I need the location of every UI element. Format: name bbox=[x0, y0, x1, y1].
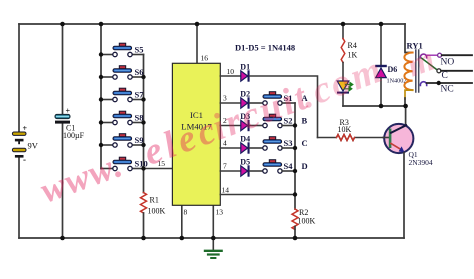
wire S1 to bus bbox=[282, 102, 295, 104]
svg-text:+: + bbox=[23, 124, 28, 133]
contact C bbox=[437, 69, 441, 73]
node: S1-S4 output bus bbox=[294, 103, 296, 209]
svg-text:D1-D5 = 1N4148: D1-D5 = 1N4148 bbox=[235, 43, 295, 53]
svg-text:C: C bbox=[442, 71, 448, 81]
transistor Q1 2N3904 bbox=[383, 124, 433, 167]
diode D3 bbox=[240, 112, 250, 131]
switch S4 bbox=[263, 160, 293, 174]
wire pin8 bbox=[181, 205, 183, 238]
wire collector bbox=[405, 106, 407, 126]
svg-text:1N4002: 1N4002 bbox=[387, 78, 407, 85]
coil wire bottom bbox=[405, 90, 413, 99]
switch S2 bbox=[263, 114, 293, 128]
wire S3 to bus bbox=[282, 147, 295, 149]
wire pin14 row bbox=[220, 194, 295, 196]
svg-text:NC: NC bbox=[441, 85, 454, 95]
svg-text:S4: S4 bbox=[284, 161, 294, 171]
wire mid rail (LED/D6/coil bottom to collector) bbox=[343, 105, 406, 107]
wire bottom rail bbox=[19, 237, 404, 239]
wire pin13 bbox=[212, 205, 214, 238]
contact NO bbox=[420, 54, 426, 58]
svg-text:NO: NO bbox=[441, 58, 455, 68]
svg-text:3: 3 bbox=[223, 94, 227, 103]
op-amp U1: IC1 LM4017 counter bbox=[172, 63, 220, 205]
ground bbox=[205, 238, 222, 258]
svg-text:R1: R1 bbox=[150, 196, 159, 205]
svg-text:-: - bbox=[23, 155, 26, 165]
relay core bbox=[415, 50, 417, 92]
wire S2 to bus bbox=[282, 125, 295, 127]
svg-text:D6: D6 bbox=[388, 65, 398, 74]
diode D5 bbox=[240, 158, 250, 177]
switch S1 bbox=[263, 92, 293, 106]
svg-text:S10: S10 bbox=[135, 159, 148, 169]
relay RY1 bbox=[404, 24, 472, 106]
svg-text:D: D bbox=[302, 161, 308, 171]
resistor R3 10K bbox=[318, 118, 384, 141]
capacitor C1 100uF bbox=[55, 24, 85, 238]
svg-text:100K: 100K bbox=[148, 207, 166, 216]
watermark www.elecircuit.com bbox=[35, 48, 389, 211]
svg-text:16: 16 bbox=[201, 54, 209, 63]
svg-text:2N3904: 2N3904 bbox=[409, 158, 433, 167]
relay armature bbox=[422, 58, 437, 70]
diode D6 1N4002 bbox=[375, 24, 406, 106]
wire pin15 bbox=[144, 168, 173, 170]
wire pin16 bbox=[196, 24, 198, 63]
svg-text:14: 14 bbox=[222, 186, 230, 195]
switch S9 bbox=[101, 134, 144, 148]
switch S10 bbox=[101, 157, 148, 171]
wire emitter bbox=[403, 153, 405, 239]
svg-text:10: 10 bbox=[227, 67, 235, 76]
svg-text:S5: S5 bbox=[135, 45, 144, 55]
wire left rail lower bbox=[18, 158, 20, 239]
wire pin3 row bbox=[220, 102, 240, 104]
wire D4 to S3 bbox=[250, 147, 263, 149]
wire pin2 row bbox=[220, 125, 240, 127]
wire pin7 row bbox=[220, 170, 240, 172]
node: right bus of left switches bbox=[143, 55, 145, 193]
resistor R1 100K bbox=[141, 193, 166, 239]
wire top rail bbox=[19, 23, 405, 25]
svg-text:9V: 9V bbox=[28, 141, 39, 151]
svg-text:100K: 100K bbox=[298, 217, 316, 226]
switch S5 bbox=[101, 43, 144, 57]
svg-text:10K: 10K bbox=[338, 125, 352, 134]
diode D4 bbox=[240, 135, 250, 154]
wire D2 to S1 bbox=[250, 102, 263, 104]
LED D7 bbox=[337, 81, 353, 106]
wire D1 to R3 corner bbox=[250, 76, 318, 138]
svg-text:13: 13 bbox=[216, 208, 224, 217]
switch S3 bbox=[263, 137, 293, 151]
svg-text:7: 7 bbox=[223, 162, 227, 171]
contact NC bbox=[420, 82, 426, 86]
diode D2 bbox=[240, 90, 250, 109]
svg-text:S3: S3 bbox=[284, 138, 293, 148]
svg-text:D1: D1 bbox=[240, 63, 250, 72]
wire left rail upper bbox=[18, 24, 20, 132]
switch S7 bbox=[101, 88, 144, 102]
svg-text:8: 8 bbox=[184, 208, 188, 217]
svg-text:D5: D5 bbox=[240, 158, 250, 167]
svg-text:C: C bbox=[302, 138, 308, 148]
coil bbox=[404, 53, 412, 91]
svg-text:100µF: 100µF bbox=[63, 131, 85, 140]
wire S4 to bus bbox=[282, 170, 295, 172]
wire D3 to S2 bbox=[250, 125, 263, 127]
wire pin10 row bbox=[220, 75, 240, 77]
svg-text:+: + bbox=[66, 107, 71, 116]
svg-text:R4: R4 bbox=[348, 41, 357, 50]
switch S6 bbox=[101, 66, 144, 80]
switch S8 bbox=[101, 111, 144, 125]
diode D1 bbox=[240, 63, 250, 82]
coil wire top bbox=[405, 24, 413, 53]
resistor R2 100K bbox=[292, 208, 316, 238]
node: left switch bus bbox=[100, 24, 102, 169]
resistor R4 1K bbox=[341, 24, 357, 81]
wire pin4 row bbox=[220, 147, 240, 149]
battery B1 9V bbox=[12, 124, 38, 165]
wire D5 to S4 bbox=[250, 170, 263, 172]
